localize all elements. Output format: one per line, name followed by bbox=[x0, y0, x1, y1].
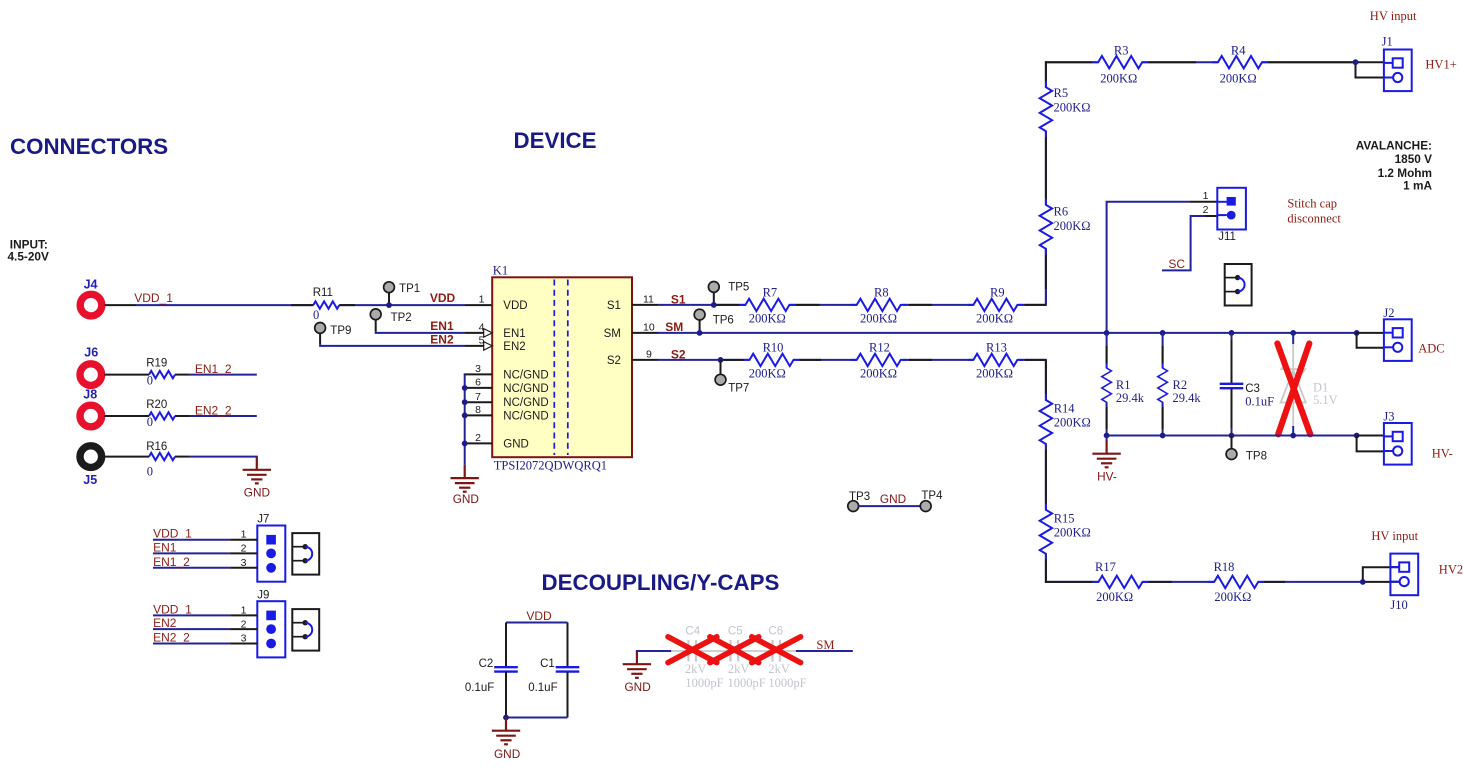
connector J1 bbox=[1382, 34, 1412, 91]
svg-text:J11: J11 bbox=[1218, 231, 1236, 243]
testpoint TP3 bbox=[848, 491, 870, 512]
svg-text:AVALANCHE:: AVALANCHE: bbox=[1356, 138, 1432, 152]
wire J7 pin3 EN1_2 bbox=[153, 555, 257, 569]
svg-text:R19: R19 bbox=[146, 357, 167, 369]
op-amp U1 chip K1 TPSI2072 bbox=[492, 264, 632, 473]
svg-text:C2: C2 bbox=[479, 658, 494, 670]
wire J7 pin2 EN1 bbox=[153, 540, 257, 554]
svg-text:R18: R18 bbox=[1214, 560, 1235, 574]
testpoint TP8 bbox=[1226, 436, 1267, 463]
svg-text:DECOUPLING/Y-CAPS: DECOUPLING/Y-CAPS bbox=[542, 570, 780, 595]
svg-text:10: 10 bbox=[643, 321, 655, 333]
svg-text:200KΩ: 200KΩ bbox=[1100, 71, 1137, 85]
resistor R2 bbox=[1158, 333, 1202, 436]
svg-text:VDD: VDD bbox=[526, 609, 552, 623]
svg-text:GND: GND bbox=[880, 492, 906, 506]
svg-text:R2: R2 bbox=[1173, 378, 1188, 392]
svg-text:200KΩ: 200KΩ bbox=[749, 312, 786, 326]
junction pin6 bbox=[462, 385, 468, 391]
svg-text:200KΩ: 200KΩ bbox=[860, 366, 897, 380]
svg-text:0.1uF: 0.1uF bbox=[528, 682, 557, 694]
svg-text:R16: R16 bbox=[146, 441, 167, 453]
resistor R7 bbox=[739, 285, 795, 325]
svg-text:NC/GND: NC/GND bbox=[503, 397, 548, 409]
svg-text:HV2: HV2 bbox=[1439, 563, 1463, 577]
svg-text:ADC: ADC bbox=[1418, 341, 1444, 355]
wire J9 pin3 EN2_2 bbox=[153, 631, 257, 645]
capacitor C6 (DNP) bbox=[773, 640, 781, 662]
svg-text:J1: J1 bbox=[1382, 34, 1393, 48]
junction SM/J2 bbox=[1354, 330, 1360, 336]
svg-text:GND: GND bbox=[503, 439, 529, 451]
wire black pin stubs bbox=[291, 61, 1353, 582]
wire J3 branch bbox=[1357, 436, 1384, 452]
svg-text:GND: GND bbox=[453, 492, 479, 506]
svg-text:NC/GND: NC/GND bbox=[503, 370, 548, 382]
svg-text:SM: SM bbox=[665, 320, 683, 334]
svg-text:R13: R13 bbox=[986, 340, 1007, 354]
resistor R16 bbox=[149, 453, 175, 460]
ground GND (R16) bbox=[243, 457, 271, 500]
wire R5-R6 bbox=[1045, 131, 1047, 205]
connector J10 bbox=[1390, 554, 1418, 612]
resistor R1 bbox=[1102, 333, 1145, 436]
resistor R13 bbox=[967, 340, 1023, 380]
svg-text:TP9: TP9 bbox=[330, 325, 351, 337]
svg-text:J7: J7 bbox=[257, 513, 269, 525]
svg-text:R6: R6 bbox=[1054, 205, 1069, 219]
junction rail/J3 bbox=[1354, 433, 1360, 439]
testpoint TP6 bbox=[694, 309, 734, 331]
capacitor C1 bbox=[528, 623, 579, 718]
svg-text:HV input: HV input bbox=[1370, 9, 1417, 23]
svg-text:GND: GND bbox=[625, 680, 651, 694]
wire J11 pin1 to SM bbox=[1107, 202, 1218, 333]
wire EN1 net bbox=[376, 331, 484, 333]
svg-text:EN2: EN2 bbox=[153, 616, 177, 630]
svg-text:200KΩ: 200KΩ bbox=[1054, 525, 1091, 539]
svg-text:VDD: VDD bbox=[503, 300, 527, 312]
svg-text:C3: C3 bbox=[1245, 383, 1260, 395]
svg-text:200KΩ: 200KΩ bbox=[976, 312, 1013, 326]
svg-text:EN2: EN2 bbox=[430, 332, 454, 346]
svg-text:EN1_2: EN1_2 bbox=[195, 362, 232, 376]
testpoint TP2 bbox=[370, 309, 411, 331]
wire R16 to ground bbox=[104, 457, 257, 458]
resistor R6 bbox=[1040, 199, 1091, 255]
junction rail/R1 bbox=[1104, 433, 1110, 439]
junction rail/R2 bbox=[1160, 433, 1166, 439]
svg-text:R4: R4 bbox=[1231, 44, 1246, 58]
value 2kV labels bbox=[685, 662, 790, 676]
svg-text:Stitch cap: Stitch cap bbox=[1287, 197, 1337, 211]
svg-text:11: 11 bbox=[643, 294, 654, 306]
capacitor C2 bbox=[465, 623, 518, 718]
resistor R4 bbox=[1212, 44, 1268, 86]
svg-text:1: 1 bbox=[479, 294, 485, 306]
connector J5 bbox=[80, 446, 102, 468]
svg-text:200KΩ: 200KΩ bbox=[1096, 590, 1133, 604]
junction pin2 bbox=[462, 441, 468, 447]
svg-text:4.5-20V: 4.5-20V bbox=[8, 250, 49, 264]
svg-text:TP8: TP8 bbox=[1246, 451, 1267, 463]
junction C2/GND bbox=[503, 715, 509, 721]
svg-text:R20: R20 bbox=[146, 399, 167, 411]
svg-text:C5: C5 bbox=[728, 626, 743, 638]
wire y-caps grey bbox=[671, 650, 797, 652]
capacitor C3 bbox=[1220, 333, 1274, 436]
wire HV- bottom rail bbox=[1107, 435, 1357, 437]
wire EN1_2 net bbox=[104, 374, 257, 376]
svg-text:0: 0 bbox=[147, 374, 153, 388]
wire R14-R15 bbox=[1045, 444, 1047, 510]
svg-text:disconnect: disconnect bbox=[1287, 211, 1341, 225]
wire EN2 net bbox=[320, 344, 484, 346]
svg-text:2kV: 2kV bbox=[728, 662, 750, 676]
resistor R8 bbox=[851, 285, 907, 325]
connector J3 bbox=[1383, 410, 1411, 465]
svg-text:HV-: HV- bbox=[1432, 446, 1453, 460]
DNP red X over C5 bbox=[710, 637, 759, 663]
wire R6 to S1 corner bbox=[1045, 249, 1047, 305]
svg-text:C1: C1 bbox=[540, 658, 555, 670]
jumper at J7 bbox=[292, 533, 319, 575]
connector J9 bbox=[241, 590, 286, 658]
svg-text:S2: S2 bbox=[671, 348, 686, 362]
wire J2 branch bbox=[1357, 333, 1384, 348]
svg-text:R7: R7 bbox=[763, 285, 778, 299]
svg-text:200KΩ: 200KΩ bbox=[860, 312, 897, 326]
wire S1 row bbox=[632, 249, 1046, 305]
junction SM/TP6 bbox=[697, 330, 703, 336]
testpoint TP4 bbox=[920, 490, 943, 511]
svg-text:TP4: TP4 bbox=[921, 490, 943, 502]
junction J10 bbox=[1360, 579, 1366, 585]
svg-text:GND: GND bbox=[494, 747, 520, 761]
svg-text:R5: R5 bbox=[1054, 86, 1069, 100]
svg-text:VDD_1: VDD_1 bbox=[153, 602, 192, 616]
connector J7 bbox=[241, 513, 286, 581]
wire J9 pin2 EN2 bbox=[153, 616, 257, 630]
junction rail/C3 bbox=[1229, 433, 1235, 439]
svg-text:EN2: EN2 bbox=[503, 341, 525, 353]
svg-text:R15: R15 bbox=[1054, 511, 1075, 525]
svg-text:1 mA: 1 mA bbox=[1403, 178, 1432, 192]
svg-text:S1: S1 bbox=[671, 293, 686, 307]
junction J1 bbox=[1353, 59, 1359, 65]
svg-text:R11: R11 bbox=[313, 287, 333, 299]
resistor R14 bbox=[1040, 394, 1091, 450]
DNP red X over D1 bbox=[1277, 344, 1310, 435]
junction pin8 bbox=[462, 413, 468, 419]
svg-text:R9: R9 bbox=[990, 285, 1005, 299]
svg-text:0: 0 bbox=[147, 415, 153, 429]
svg-text:TP3: TP3 bbox=[849, 491, 870, 503]
svg-text:HV1+: HV1+ bbox=[1425, 57, 1456, 71]
svg-text:200KΩ: 200KΩ bbox=[749, 366, 786, 380]
svg-text:EN1: EN1 bbox=[153, 540, 177, 554]
junction TP1/VDD bbox=[386, 302, 392, 308]
svg-text:9: 9 bbox=[646, 349, 652, 361]
wire SM row bbox=[632, 332, 1357, 334]
junction SM/J11 bbox=[1104, 330, 1110, 336]
svg-text:J3: J3 bbox=[1383, 410, 1394, 424]
svg-text:TP6: TP6 bbox=[713, 315, 734, 327]
resistor R18 bbox=[1208, 560, 1264, 604]
svg-text:SC: SC bbox=[1168, 257, 1185, 271]
svg-text:J5: J5 bbox=[83, 473, 97, 487]
svg-text:1: 1 bbox=[1203, 190, 1209, 202]
svg-text:0.1uF: 0.1uF bbox=[1245, 395, 1274, 409]
testpoint TP1 bbox=[384, 282, 421, 303]
connector J2 bbox=[1383, 306, 1411, 361]
svg-text:R17: R17 bbox=[1095, 560, 1116, 574]
svg-text:200KΩ: 200KΩ bbox=[1220, 71, 1257, 85]
ground HV- bbox=[1092, 436, 1120, 484]
svg-text:EN2_2: EN2_2 bbox=[153, 631, 190, 645]
svg-text:J2: J2 bbox=[1383, 306, 1394, 320]
svg-text:R10: R10 bbox=[763, 340, 784, 354]
svg-text:DEVICE: DEVICE bbox=[514, 128, 597, 153]
svg-text:VDD_1: VDD_1 bbox=[134, 291, 173, 305]
svg-text:200KΩ: 200KΩ bbox=[1054, 219, 1091, 233]
testpoint TP7 bbox=[715, 360, 749, 394]
svg-text:0: 0 bbox=[313, 308, 319, 322]
wire SM (y-caps) bbox=[796, 650, 853, 652]
wire S2 row bbox=[632, 360, 1046, 400]
svg-text:5.1V: 5.1V bbox=[1313, 393, 1338, 407]
svg-text:TP1: TP1 bbox=[399, 283, 420, 295]
note Stitch cap disconnect bbox=[1287, 197, 1341, 226]
svg-text:R8: R8 bbox=[874, 285, 889, 299]
resistor R5 bbox=[1040, 81, 1091, 137]
svg-text:EN1: EN1 bbox=[503, 328, 525, 340]
svg-text:NC/GND: NC/GND bbox=[503, 410, 548, 422]
svg-text:EN2_2: EN2_2 bbox=[195, 403, 232, 417]
wire VDD_1 net bbox=[105, 304, 493, 306]
testpoint TP9 bbox=[315, 323, 352, 345]
svg-text:S1: S1 bbox=[607, 300, 621, 312]
svg-text:CONNECTORS: CONNECTORS bbox=[10, 134, 168, 159]
junction rail/D1 bbox=[1290, 433, 1296, 439]
capacitor C5 (DNP) bbox=[731, 640, 739, 662]
ground GND (decoupling) bbox=[492, 718, 520, 761]
wire VDD top (decoupling) bbox=[506, 622, 568, 624]
wire HV2 bottom rail bbox=[1046, 554, 1399, 582]
svg-text:1000pF: 1000pF bbox=[728, 676, 766, 690]
resistor R10 bbox=[744, 340, 800, 380]
junction SM/C3 bbox=[1229, 330, 1235, 336]
junction SM/D1 bbox=[1290, 330, 1296, 336]
svg-text:200KΩ: 200KΩ bbox=[1214, 590, 1251, 604]
wire EN2_2 net bbox=[104, 415, 257, 417]
connector J11 bbox=[1203, 188, 1246, 243]
svg-text:NC/GND: NC/GND bbox=[503, 383, 548, 395]
svg-text:VDD_1: VDD_1 bbox=[153, 527, 192, 541]
jumper near J11 bbox=[1225, 264, 1252, 306]
svg-text:J6: J6 bbox=[84, 345, 98, 359]
svg-text:1000pF: 1000pF bbox=[685, 676, 723, 690]
svg-text:29.4k: 29.4k bbox=[1173, 391, 1202, 405]
svg-text:2: 2 bbox=[1203, 204, 1209, 216]
resistor R3 bbox=[1092, 44, 1148, 86]
wire TP3-TP4 GND bbox=[859, 492, 921, 506]
wire J7 pin1 VDD_1 bbox=[153, 527, 257, 541]
wire GND bottom (decoupling) bbox=[506, 717, 568, 719]
svg-text:C4: C4 bbox=[685, 626, 700, 638]
connector J6 bbox=[80, 364, 102, 386]
resistor R19 bbox=[149, 371, 175, 378]
junction S1/TP5 bbox=[711, 302, 717, 308]
resistor R17 bbox=[1093, 560, 1149, 604]
svg-text:EN1: EN1 bbox=[430, 319, 454, 333]
connector J4 bbox=[80, 294, 102, 316]
testpoint TP5 bbox=[708, 282, 749, 304]
svg-text:J4: J4 bbox=[84, 277, 98, 291]
svg-text:J10: J10 bbox=[1390, 598, 1407, 612]
resistor R20 bbox=[149, 412, 175, 419]
svg-text:TPSI2072QDWQRQ1: TPSI2072QDWQRQ1 bbox=[494, 459, 607, 473]
resistor R15 bbox=[1040, 504, 1091, 560]
svg-text:K1: K1 bbox=[493, 264, 508, 278]
svg-text:29.4k: 29.4k bbox=[1116, 391, 1145, 405]
svg-text:C6: C6 bbox=[768, 626, 783, 638]
svg-text:EN1_2: EN1_2 bbox=[153, 555, 190, 569]
svg-text:TP2: TP2 bbox=[391, 312, 412, 324]
connector J8 bbox=[80, 405, 102, 427]
diode D1 (DNP) bbox=[1281, 333, 1338, 436]
svg-text:R3: R3 bbox=[1114, 44, 1129, 58]
ground GND (chip) bbox=[451, 465, 479, 506]
svg-text:R12: R12 bbox=[869, 340, 890, 354]
wire SC to J11 pin2 bbox=[1162, 216, 1217, 270]
svg-text:SM: SM bbox=[816, 638, 834, 652]
svg-text:J9: J9 bbox=[257, 590, 269, 602]
svg-text:J8: J8 bbox=[83, 388, 97, 402]
svg-text:200KΩ: 200KΩ bbox=[976, 366, 1013, 380]
svg-text:R1: R1 bbox=[1116, 378, 1131, 392]
svg-text:200KΩ: 200KΩ bbox=[1054, 416, 1091, 430]
junction pin7 bbox=[462, 399, 468, 405]
svg-text:1850 V: 1850 V bbox=[1395, 152, 1433, 166]
svg-text:S2: S2 bbox=[607, 355, 621, 367]
jumper at J9 bbox=[292, 609, 319, 651]
svg-text:SM: SM bbox=[604, 328, 621, 340]
wire J9 pin1 VDD_1 bbox=[153, 602, 257, 616]
svg-text:R14: R14 bbox=[1054, 402, 1076, 416]
svg-text:TP5: TP5 bbox=[728, 282, 749, 294]
svg-text:TP7: TP7 bbox=[728, 382, 749, 394]
svg-text:2kV: 2kV bbox=[768, 662, 790, 676]
DNP red X over C4 bbox=[668, 637, 717, 663]
svg-text:0.1uF: 0.1uF bbox=[465, 682, 494, 694]
resistor R9 bbox=[967, 285, 1023, 325]
wire NC/GND chain bbox=[465, 374, 493, 465]
svg-text:200KΩ: 200KΩ bbox=[1054, 101, 1091, 115]
resistor R11 bbox=[313, 301, 339, 308]
svg-text:GND: GND bbox=[244, 485, 270, 499]
svg-text:1000pF: 1000pF bbox=[768, 676, 806, 690]
junction SM/R2 bbox=[1160, 330, 1166, 336]
svg-text:HV input: HV input bbox=[1371, 529, 1418, 543]
junction S2/TP7 bbox=[718, 357, 724, 363]
DNP red X over C6 bbox=[752, 637, 801, 663]
svg-text:2kV: 2kV bbox=[685, 662, 707, 676]
svg-text:HV-: HV- bbox=[1097, 470, 1117, 484]
resistor R12 bbox=[851, 340, 907, 380]
capacitor C4 (DNP) bbox=[688, 640, 696, 662]
value 1000pF labels bbox=[685, 676, 806, 690]
ground GND (y-caps) bbox=[623, 651, 673, 694]
svg-text:0: 0 bbox=[147, 464, 153, 478]
wire HV1 top rail bbox=[1046, 62, 1384, 87]
svg-text:VDD: VDD bbox=[430, 291, 456, 305]
